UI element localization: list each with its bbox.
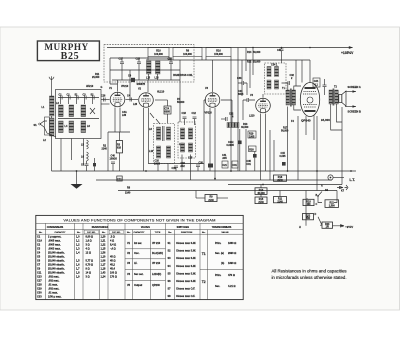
svg-text:CAPACITY: CAPACITY xyxy=(133,231,145,234)
svg-text:100,000: 100,000 xyxy=(183,53,192,56)
svg-text:100/3: 100/3 xyxy=(154,163,161,166)
svg-text:O.P. NO.: O.P. NO. xyxy=(112,232,121,234)
wire IF2 feed xyxy=(179,60,181,122)
svg-text:C23.002 max.1,93 Ω1,24170 Ω: C23.002 max.1,93 Ω1,24170 Ω xyxy=(37,276,117,279)
resistor R11 label xyxy=(92,73,100,79)
svg-text:.005: .005 xyxy=(222,157,227,160)
svg-text:VP210: VP210 xyxy=(205,112,213,115)
svg-text:SCREEN B: SCREEN B xyxy=(348,110,362,114)
switch S5 arrow xyxy=(156,119,160,124)
ground bus 1 xyxy=(52,170,357,172)
resistor R2 label xyxy=(102,132,109,171)
switches rows xyxy=(168,242,197,298)
coil L3 xyxy=(59,105,64,117)
svg-text:(b)1890 Ω: (b)1890 Ω xyxy=(221,262,236,265)
coil L6a xyxy=(69,121,74,133)
svg-text:VALUES AND FUNCTIONS OF CO: VALUES AND FUNCTIONS OF COMPONENTS NOT G… xyxy=(63,218,215,223)
svg-text:L.T.: L.T. xyxy=(350,178,356,182)
svg-text:94,000: 94,000 xyxy=(321,118,330,122)
title box MURPHY B25 xyxy=(37,41,99,62)
transformer T1 xyxy=(282,87,296,107)
svg-text:G: G xyxy=(101,86,103,89)
sub headers xyxy=(39,230,229,234)
wire V2 grid cap xyxy=(147,80,149,92)
capacitor C20 xyxy=(196,162,204,172)
wire verticals mid xyxy=(270,130,274,180)
resistor R18a box xyxy=(274,175,287,182)
svg-text:610: 610 xyxy=(117,147,122,150)
svg-text:400: 400 xyxy=(307,203,312,206)
svg-text:C20: C20 xyxy=(199,162,204,165)
svg-text:B: B xyxy=(316,194,318,197)
svg-text:H: H xyxy=(299,226,301,229)
svg-text:C3.0003 max.1,34 Ω1,15-,4 Ω: C3.0003 max.1,34 Ω1,15-,4 Ω xyxy=(37,248,116,251)
svg-text:40,000: 40,000 xyxy=(241,126,249,129)
resistor R23 box xyxy=(322,222,333,229)
resistor R19 box xyxy=(248,131,256,138)
HT rail xyxy=(107,46,353,49)
svg-text:T1: T1 xyxy=(202,252,206,256)
wire verticals to det xyxy=(246,48,253,76)
capacitor C32 xyxy=(286,74,295,85)
capacitor dark square b xyxy=(253,152,257,172)
wire verticals below output xyxy=(298,107,342,191)
svg-text:TRANSFORMERS: TRANSFORMERS xyxy=(212,226,232,229)
wire tuning box to V1 grid xyxy=(101,95,110,105)
svg-text:C2.0005 max.1,23 Ω1,228,4 Ω: C2.0005 max.1,23 Ω1,228,4 Ω xyxy=(37,244,116,247)
svg-text:150,000: 150,000 xyxy=(214,53,223,56)
svg-text:No.: No. xyxy=(102,232,106,234)
svg-text:No.: No. xyxy=(77,232,81,234)
wire aerial to tuning box xyxy=(51,116,53,171)
resistor R21 box xyxy=(325,200,339,208)
capacitor C22 xyxy=(221,113,234,122)
bandpass coil dashed box xyxy=(104,45,194,82)
svg-text:L86: L86 xyxy=(122,114,127,117)
condensers + resistances data rows xyxy=(37,236,117,299)
svg-text:1905: 1905 xyxy=(249,135,255,138)
osc coil dashed box xyxy=(265,63,287,94)
capacitor C34a near anode xyxy=(313,78,320,87)
capacitor C16b on bus xyxy=(180,162,186,168)
wire left feed down to V1 area xyxy=(110,58,130,100)
switch S6 xyxy=(317,189,328,197)
capacitor C40 xyxy=(110,155,118,172)
svg-text:VALUE: VALUE xyxy=(221,231,229,234)
aerial coil L1 xyxy=(50,96,55,116)
svg-text:2140: 2140 xyxy=(208,199,214,202)
capacitor C15b xyxy=(280,152,287,166)
capacitor C16 xyxy=(168,58,174,71)
svg-text:No.: No. xyxy=(39,232,43,234)
svg-text:Sh: Sh xyxy=(34,124,38,127)
note text bottom right xyxy=(271,269,347,281)
label SCREEN B with arrow xyxy=(345,105,361,113)
resistor R9 box xyxy=(196,191,228,202)
svg-text:S6587B: S6587B xyxy=(137,83,146,86)
svg-text:C1A.0005 max.1,11,6 Ω1,214 Ω: C1A.0005 max.1,11,6 Ω1,214 Ω xyxy=(37,240,114,243)
svg-text:C12 μ approx.1,08,00 Ω1,20.3 Ω: C12 μ approx.1,08,00 Ω1,20.3 Ω xyxy=(37,236,115,239)
capacitor C7A box xyxy=(155,100,171,123)
bus 3 xyxy=(228,184,342,186)
coil L4 xyxy=(59,121,64,133)
svg-text:−9½V: −9½V xyxy=(345,225,354,229)
dark component on bus xyxy=(208,164,213,168)
terminal arrow K7 xyxy=(337,185,348,193)
svg-text:C725,040 elastic.1,68,70 Ω1,17: C725,040 elastic.1,68,70 Ω1,1745,2 xyxy=(37,264,115,267)
svg-text:T2: T2 xyxy=(202,280,206,284)
svg-text:HF210: HF210 xyxy=(86,85,94,88)
svg-text:C01: C01 xyxy=(233,164,238,167)
aerial plug/switch xyxy=(34,121,57,137)
node letters xyxy=(299,185,323,230)
capacitor C22 small boxes xyxy=(222,161,238,168)
svg-text:C27.002 max.: C27.002 max. xyxy=(37,280,60,283)
resistor R4 label xyxy=(122,111,127,117)
screen rail xyxy=(146,59,310,61)
svg-text:C331/50 μ max.: C331/50 μ max. xyxy=(37,296,62,299)
switch S4 arrow xyxy=(150,113,154,118)
svg-text:C30.01 max.: C30.01 max. xyxy=(37,292,58,295)
RF choke CGH xyxy=(227,123,240,148)
svg-text:C21: C21 xyxy=(223,164,228,167)
resistor R3 xyxy=(116,132,122,171)
svg-text:B25: B25 xyxy=(61,51,80,62)
wire IF output run xyxy=(148,163,204,165)
svg-text:C29.002 max.: C29.002 max. xyxy=(37,288,60,291)
output valve QP240 xyxy=(300,83,319,123)
svg-text:25,000: 25,000 xyxy=(92,76,100,79)
wire T1 sec to QP240 xyxy=(294,86,301,110)
coil L6 xyxy=(81,152,88,161)
junction dots rail xyxy=(252,47,311,49)
capacitor C41 label xyxy=(222,154,227,160)
resistor R16 xyxy=(206,48,231,61)
resistor R22 box xyxy=(303,214,314,221)
svg-text:A: A xyxy=(321,185,323,188)
L.T. jack xyxy=(328,175,355,182)
wire T2 down xyxy=(331,104,342,130)
transformers rows xyxy=(200,242,243,288)
resistor R15 box xyxy=(255,185,267,205)
trimmer C13 on grid wire xyxy=(128,75,145,86)
svg-text:0.005: 0.005 xyxy=(280,155,287,158)
svg-text:+135½V: +135½V xyxy=(341,51,354,55)
svg-text:No.: No. xyxy=(202,232,206,234)
capacitor C12 xyxy=(192,112,197,125)
grid caps cluster near V4 xyxy=(238,90,255,120)
svg-text:2140: 2140 xyxy=(277,179,283,182)
svg-text:C18: C18 xyxy=(182,112,187,115)
transformer T2 xyxy=(329,86,338,106)
svg-text:2140: 2140 xyxy=(277,200,283,203)
svg-text:No.: No. xyxy=(127,232,131,234)
resistor R17 label xyxy=(281,107,294,172)
capacitor dark square a xyxy=(238,129,242,171)
wire V3 anode xyxy=(212,60,214,92)
wire QP240 cathode down xyxy=(306,115,314,140)
coil L5 xyxy=(81,140,88,149)
svg-text:2140: 2140 xyxy=(258,201,264,204)
-9LV terminal arrow xyxy=(333,225,355,229)
wire inside bandpass box xyxy=(110,58,180,70)
svg-text:C26: C26 xyxy=(101,95,106,98)
svg-text:FUNCTION: FUNCTION xyxy=(181,232,193,234)
svg-text:100/26: 100/26 xyxy=(110,158,118,161)
aerial mast symbol xyxy=(49,76,54,96)
svg-text:BANDPASS COIL: BANDPASS COIL xyxy=(173,74,193,77)
valves rows xyxy=(125,242,166,287)
resistor R6 xyxy=(173,48,202,61)
coil L8a xyxy=(81,105,86,117)
svg-text:L210: L210 xyxy=(249,115,255,118)
capacitor C36 mid xyxy=(323,79,327,95)
svg-text:HL210: HL210 xyxy=(157,91,165,94)
svg-text:L10: L10 xyxy=(149,150,154,153)
svg-text:6005: 6005 xyxy=(165,111,171,114)
svg-text:50,000: 50,000 xyxy=(177,101,185,104)
svg-text:1,500: 1,500 xyxy=(329,204,336,207)
capacitor C17 xyxy=(119,58,125,71)
coil L8 xyxy=(81,121,86,133)
loudspeaker xyxy=(339,91,346,106)
svg-text:VALVES: VALVES xyxy=(141,226,150,229)
junction dots xyxy=(145,170,288,185)
ground symbol xyxy=(71,170,83,189)
wire tuning box mid xyxy=(58,118,99,120)
svg-text:C01: C01 xyxy=(247,163,252,166)
resistor R13 box xyxy=(255,188,267,195)
resistor R12 label xyxy=(247,61,261,64)
resistor R18 box xyxy=(303,199,314,206)
wire long vertical from rail x231 xyxy=(230,60,232,171)
svg-text:0.0005: 0.0005 xyxy=(227,144,235,147)
svg-text:C: C xyxy=(316,203,318,206)
svg-text:TYPE: TYPE xyxy=(155,232,161,234)
wire V1 grid cap xyxy=(117,80,119,92)
svg-text:500: 500 xyxy=(306,217,311,220)
svg-text:.002: .002 xyxy=(180,165,185,168)
svg-text:SWITCHES: SWITCHES xyxy=(177,227,190,229)
svg-text:CONDENSERS: CONDENSERS xyxy=(47,227,64,229)
svg-text:C1125,040 elastic.1,814 Ω1,431: C1125,040 elastic.1,814 Ω1,43100 Ω xyxy=(37,272,117,275)
svg-text:6005: 6005 xyxy=(238,93,244,96)
capacitor C11 box xyxy=(117,176,122,181)
coil C10a xyxy=(69,105,74,117)
resistor R13 R15 labels xyxy=(241,123,249,171)
svg-text:50,000: 50,000 xyxy=(253,51,261,54)
wire vertical x238 xyxy=(237,48,239,172)
wire QP240 anode top xyxy=(309,60,311,83)
svg-text:All Resistances in ohms an: All Resistances in ohms and capacities xyxy=(271,269,347,274)
svg-text:R20: R20 xyxy=(249,148,254,151)
aerial coil L2 xyxy=(50,118,55,136)
capacitor C8 xyxy=(81,161,89,171)
capacitor C19 xyxy=(172,166,179,171)
capacitor C18 xyxy=(182,112,187,125)
svg-text:VP210: VP210 xyxy=(121,85,129,88)
wire V3 grid vertical xyxy=(204,100,206,171)
svg-text:L16: L16 xyxy=(155,77,160,80)
svg-text:O.P. NO.: O.P. NO. xyxy=(87,232,96,234)
wires under IF transformers xyxy=(158,155,191,181)
svg-text:L26: L26 xyxy=(133,103,138,106)
svg-text:R14: R14 xyxy=(247,51,252,54)
svg-text:CAPACITY: CAPACITY xyxy=(54,231,66,234)
grid wire y80 xyxy=(112,70,180,80)
svg-text:40,000: 40,000 xyxy=(257,192,265,195)
bus 4 xyxy=(118,190,337,192)
svg-text:C625,040 elastic.1,55,77 Ω1,06: C625,040 elastic.1,55,77 Ω1,0645 Ω xyxy=(37,260,115,263)
coupling V1-V2 xyxy=(126,95,139,107)
svg-text:C33: C33 xyxy=(237,77,242,80)
wire V4 cathode down xyxy=(261,114,266,181)
svg-text:No.: No. xyxy=(168,232,172,234)
svg-text:C925,040 elastic.1,79 Ω1,1845,: C925,040 elastic.1,79 Ω1,1845,4 xyxy=(37,268,115,271)
resistor R11b box xyxy=(274,191,287,204)
capacitor C31 xyxy=(277,48,284,64)
capacitor C35 xyxy=(247,160,252,166)
resistor R8 label xyxy=(125,187,131,195)
capacitor C33 xyxy=(237,77,247,95)
svg-text:C12: C12 xyxy=(192,112,197,115)
wire between V3 and V4 xyxy=(221,100,232,125)
wire verticals osc feed xyxy=(242,60,250,96)
wire output ground junctions xyxy=(316,170,352,172)
switch S3 arrow inside box xyxy=(90,108,95,114)
table of values and functions xyxy=(36,215,243,299)
svg-text:C11: C11 xyxy=(117,178,122,181)
wire V4 anode up xyxy=(262,94,264,98)
svg-text:C28.01 max.: C28.01 max. xyxy=(37,284,58,287)
svg-text:100,000: 100,000 xyxy=(154,53,163,56)
resistor R14 label xyxy=(247,51,261,54)
aerial coupling box xyxy=(45,117,50,135)
column lines xyxy=(44,223,46,299)
label SCREEN A with arrow xyxy=(345,85,361,93)
capacitor C25 xyxy=(136,58,142,71)
svg-text:C34 1: C34 1 xyxy=(271,64,278,67)
bias chain wires xyxy=(306,191,337,226)
svg-text:25,000: 25,000 xyxy=(253,61,261,64)
svg-text:2140: 2140 xyxy=(125,192,131,195)
wire V3 cathode down xyxy=(210,108,215,180)
svg-text:in microfarads unless other: in microfarads unless otherwise stated. xyxy=(271,275,346,280)
svg-text:R12: R12 xyxy=(247,61,252,64)
bus 2 xyxy=(96,179,332,181)
tuning coil unit box xyxy=(56,90,102,139)
trimmer C9 xyxy=(93,158,96,171)
wire V1 cathode down xyxy=(108,108,130,133)
wire V2 cathode down xyxy=(144,108,149,171)
svg-text:SCREEN A: SCREEN A xyxy=(348,85,361,89)
wire T1 primary top xyxy=(282,83,288,90)
svg-text:D: D xyxy=(315,213,317,216)
wire screen feeds to output xyxy=(296,60,302,86)
resistor R20 box xyxy=(249,146,257,152)
resistor R7 xyxy=(177,98,185,104)
resistor R10 xyxy=(148,48,169,61)
svg-text:RESISTANCES: RESISTANCES xyxy=(92,226,109,229)
trimmer row C1-C4 with switches S1 S2 xyxy=(58,94,99,105)
coils L15 L16 xyxy=(146,61,160,80)
wires below tuning box xyxy=(61,139,84,172)
svg-text:2140: 2140 xyxy=(102,148,108,151)
